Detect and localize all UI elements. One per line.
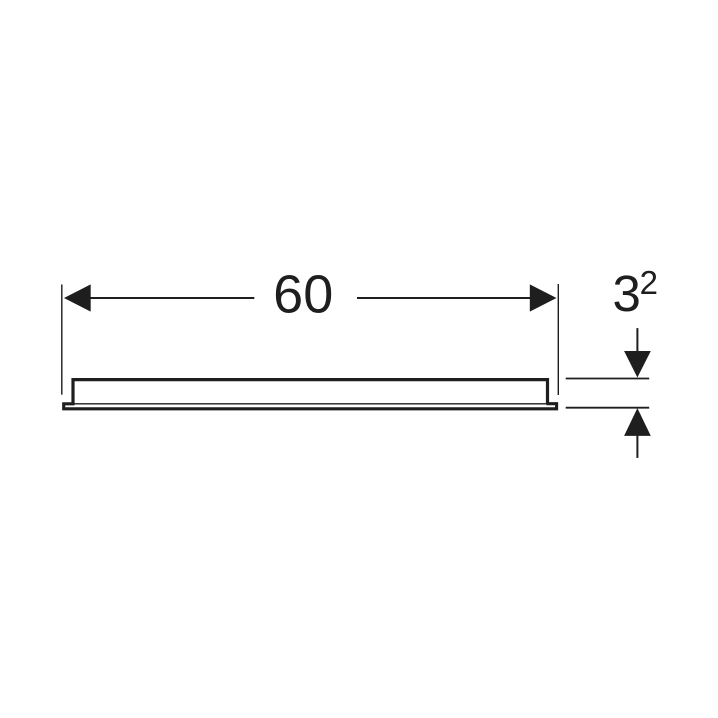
svg-text:3: 3 (613, 265, 641, 322)
dimension line 60 right segment (357, 297, 531, 299)
base plate top edge (thin) (74, 403, 547, 405)
arrowhead right (530, 284, 557, 311)
down arrow tail (636, 328, 638, 352)
up arrowhead (624, 408, 651, 436)
extension line right (557, 284, 559, 395)
svg-text:2: 2 (640, 264, 658, 301)
arrowhead left (64, 284, 91, 311)
leader line bottom (thickness dimension) (566, 407, 650, 409)
extension line left (61, 285, 63, 395)
down arrowhead (624, 351, 651, 378)
dimension line 60 left segment (89, 297, 254, 299)
svg-text:60: 60 (273, 265, 333, 325)
mirror body outline (73, 380, 548, 405)
up arrow tail (636, 435, 638, 458)
base plate outline (64, 404, 557, 409)
leader line top (thickness dimension) (566, 378, 650, 380)
